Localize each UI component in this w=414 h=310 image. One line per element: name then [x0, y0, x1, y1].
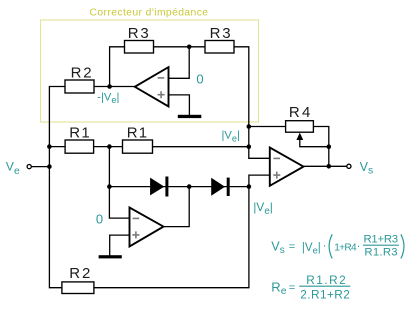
wire: op-amp U3 output to Vs terminal [304, 165, 347, 167]
svg-text:0: 0 [96, 212, 103, 227]
svg-text:R4: R4 [289, 104, 310, 121]
op-amp U3 plus sign [273, 172, 280, 179]
junction node between R1a and R1b [107, 144, 112, 149]
formula Vs [271, 233, 404, 258]
wire: |Ve| bus to R4 left end [249, 126, 286, 128]
ground (op-amp U1) [178, 115, 202, 118]
wire: op-amp U3 non-inverting input down to lower |Ve| node [249, 175, 270, 187]
svg-text:|Ve|: |Ve| [222, 130, 240, 144]
wire: R1 junction down through diode tap to op-amp U2 inverting input [109, 147, 129, 219]
diode D2 cathode bar [227, 178, 230, 196]
svg-text:R1: R1 [127, 124, 147, 141]
junction node left bus / R1a [47, 144, 52, 149]
op-amp U1 minus sign [158, 77, 165, 79]
svg-text:R1: R1 [69, 124, 89, 141]
wire: R4 right end down to output node [313, 127, 328, 167]
svg-text:R1+R3: R1+R3 [364, 233, 399, 245]
wire: R4 wiper stem to right terminal [300, 139, 329, 147]
wire: op-amp U1 non-inverting input to ground [169, 95, 190, 115]
op-amp U3 [270, 148, 304, 186]
op-amp U2 plus sign [132, 231, 139, 238]
wire: R1a right end to R1b left end [93, 146, 122, 148]
wire: op-amp U2 non-inverting input to ground [110, 235, 130, 255]
potentiometer R4 wiper arrow [296, 133, 303, 140]
wire: R1b right end to |Ve| bus [153, 146, 249, 148]
resistor R3 (first) [125, 41, 154, 54]
junction node R4 wiper / right terminal [327, 144, 332, 149]
svg-text:=: = [289, 282, 295, 294]
op-amp U2 [130, 208, 164, 247]
terminal Ve [27, 165, 31, 169]
formula Re [271, 273, 350, 302]
svg-text:|Ve|: |Ve| [302, 242, 321, 256]
resistor R3 (second) [205, 41, 234, 54]
wire: R3a right end to mid node [154, 46, 190, 48]
wire: R3b right end down right-hand |Ve| bus to op-amp U3 inverting input [234, 47, 270, 159]
junction node between R3a and R3b [187, 45, 192, 50]
svg-text:R3: R3 [128, 25, 149, 42]
diode D1 cathode bar [165, 177, 168, 197]
svg-text:R2: R2 [71, 64, 92, 81]
wire: op-amp U1 inverting input up to mid node [169, 47, 190, 79]
svg-text:0: 0 [196, 71, 203, 86]
wire: R2 corr right end to op-amp U1 output tip, node -|Ve| [94, 86, 135, 88]
op-amp U3 minus sign [273, 157, 280, 159]
junction node |Ve| bus / R4 left [247, 124, 252, 129]
svg-text:2.R1+R2: 2.R1+R2 [300, 287, 350, 301]
op-amp U1 plus sign [158, 91, 165, 98]
svg-text:Correcteur d'impédance: Correcteur d'impédance [90, 7, 209, 18]
svg-text:R2: R2 [69, 265, 90, 282]
group box Correcteur d'impedance [41, 20, 259, 122]
resistor R1 (second) [123, 140, 153, 153]
wire: op-amp U2 output up to node between diodes [164, 187, 190, 227]
svg-text:R3: R3 [210, 25, 231, 42]
junction node at -|Ve| [107, 84, 112, 89]
resistor R2 (correcteur) [65, 80, 94, 93]
wire: left bus to R1a left end [49, 146, 65, 148]
svg-text:R1.R3: R1.R3 [364, 247, 397, 259]
resistor R2 (bottom) [62, 282, 94, 294]
ground (op-amp U2) [99, 255, 122, 258]
junction node op-amp U3 output [327, 164, 332, 169]
svg-text:1+R4: 1+R4 [334, 242, 357, 253]
terminal Vs [347, 164, 351, 168]
junction node diode row tap [107, 184, 112, 189]
svg-text:·: · [323, 240, 327, 252]
svg-text:·: · [357, 240, 361, 252]
junction node between diodes [187, 184, 192, 189]
svg-text:R1.R2: R1.R2 [306, 273, 346, 287]
svg-text:-|Ve|: -|Ve| [97, 92, 119, 106]
diode D2 triangle [211, 178, 225, 196]
wire: mid node to R3b left end [189, 46, 205, 48]
op-amp U1 (left-pointing) [135, 67, 169, 106]
wire: diode row from R1 junction branch to lower |Ve| node [109, 186, 249, 188]
resistor R1 (first) [65, 140, 94, 153]
junction node |Ve| bus / R1b [247, 144, 252, 149]
wire: lower |Ve| node down and along bottom to R2 bottom right end [94, 187, 249, 288]
potentiometer R4 body [286, 121, 314, 133]
wire: left bus (R2 corr left end, down left side, to bottom R2 left end) [49, 87, 65, 288]
junction node left bus / Ve [47, 164, 52, 169]
svg-text:=: = [289, 241, 295, 253]
junction node lower |Ve| [247, 184, 252, 189]
diode D1 triangle [150, 178, 164, 196]
op-amp U2 minus sign [133, 217, 140, 219]
wire: node -|Ve| up and right to R3a left end [110, 47, 125, 87]
wire: Ve terminal to left bus [32, 166, 50, 168]
